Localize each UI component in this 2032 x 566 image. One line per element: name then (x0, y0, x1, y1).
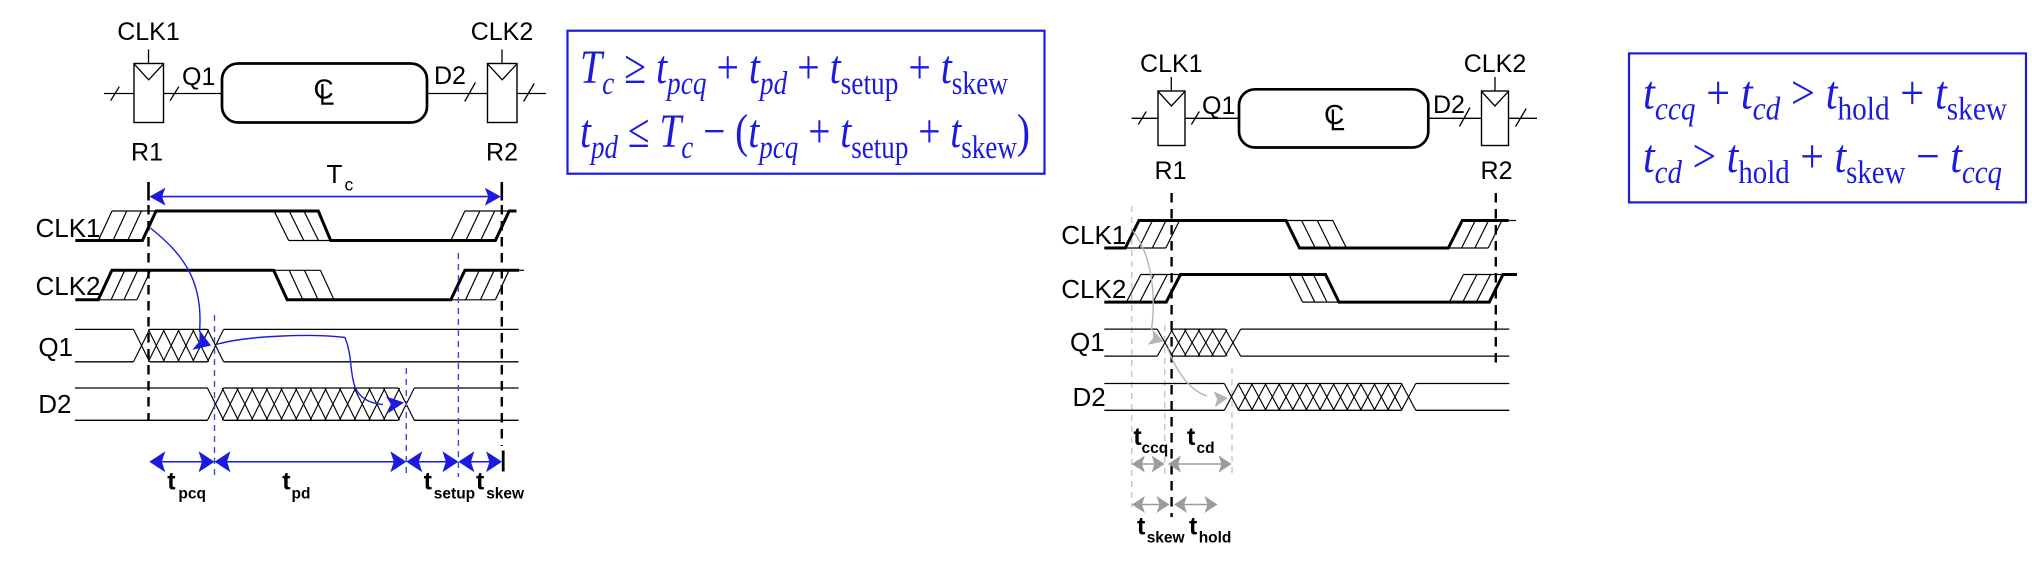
svg-text:pcq: pcq (178, 486, 206, 503)
dashed marker: Q1 settled (tpcq end) (214, 315, 216, 477)
svg-text:tcd > thold + tskew − tccq: tcd > thold + tskew − tccq (1643, 130, 2002, 191)
waveform CLK2 (right): rise-2 uncertainty hatch (1449, 275, 1503, 303)
svg-text:ccq: ccq (1142, 440, 1169, 457)
wire input to R1 with bus slash (104, 87, 134, 101)
label tpcq (167, 468, 206, 503)
svg-text:CLK2: CLK2 (1464, 50, 1527, 78)
waveform D2 (right): bus rails (1104, 384, 1509, 411)
waveform CLK1 (right): main thick trace (1104, 221, 1508, 249)
gray dashed marker: D2 contamination (1231, 368, 1233, 476)
svg-text:t: t (476, 468, 485, 496)
dimension arrow tpcq (159, 461, 205, 463)
waveform CLK1 (left): rise-2 uncertainty hatch (451, 211, 509, 241)
svg-text:t: t (1137, 513, 1146, 541)
label thold (1189, 513, 1231, 547)
svg-text:t: t (424, 468, 433, 496)
dashed line: R2 clock edge (right) (1495, 193, 1497, 369)
svg-text:CLK1: CLK1 (35, 213, 100, 243)
label tskew (476, 468, 525, 503)
dashed line: R2 clock edge (left) (501, 205, 503, 446)
waveform CLK2 (right): fall-1 uncertainty hatch (1289, 275, 1339, 303)
waveform CLK1 (right): fall-1 uncertainty hatch (1286, 221, 1346, 249)
waveform CLK2 (left): rise-2 uncertainty hatch (451, 270, 524, 300)
svg-text:setup: setup (434, 486, 475, 503)
causality arrow: CLK1 edge to Q1 change (151, 228, 201, 332)
svg-text:t: t (1187, 423, 1196, 451)
waveform Q1 (right): transition crosshatch (1157, 329, 1241, 356)
wire input to R1 with bus slash (right) (1132, 112, 1158, 125)
svg-text:Q1: Q1 (182, 63, 215, 91)
dimension arrow tccq (1140, 463, 1157, 465)
Tc period dimension arrow with end ticks (149, 182, 502, 206)
svg-text:CLK2: CLK2 (35, 271, 100, 301)
svg-text:D2: D2 (434, 62, 466, 90)
svg-text:t: t (282, 468, 291, 496)
causality arrow: Q1 to D2 change (216, 336, 383, 405)
svg-text:c: c (345, 175, 354, 195)
svg-text:skew: skew (1147, 530, 1186, 547)
svg-text:R2: R2 (486, 139, 518, 167)
waveform CLK2 (left): fall-1 uncertainty hatch (274, 270, 334, 300)
dimension arrow tskew (right) (1140, 504, 1162, 506)
waveform CLK2 (left): rise-1 uncertainty hatch (98, 270, 150, 300)
dashed line: R1 clock edge (left) (147, 205, 149, 420)
flip-flop R1 (134, 64, 164, 123)
svg-text:CLK1: CLK1 (1140, 50, 1203, 78)
dimension arrow tskew (468, 461, 492, 463)
label tpd (282, 468, 310, 503)
wire R2 output with bus slash (right) (1509, 109, 1538, 127)
gray dashed marker: CLK1 early edge (1131, 206, 1133, 507)
wire CLK2 to R2 clock pin (right) (1494, 77, 1496, 91)
svg-text:R2: R2 (1481, 157, 1513, 185)
waveform Q1 (right): bus rails (1104, 329, 1509, 356)
wire CLK2 to R2 clock pin (501, 50, 503, 64)
svg-text:C: C (1324, 99, 1344, 130)
CL symbol (314, 74, 334, 105)
waveform CLK1 (left): rise-1 uncertainty hatch (98, 211, 156, 241)
label tskew (right) (1137, 513, 1186, 547)
waveform CLK1 (left): main thick trace (75, 211, 516, 241)
wire D2: CL to R2 with bus slash (right) (1428, 108, 1481, 127)
flip-flop R1 (right) (1158, 91, 1185, 146)
wire CLK1 to R1 clock pin (148, 50, 150, 64)
CL combinational logic block (right) (1239, 89, 1428, 147)
equation box: hold time constraint (1629, 53, 2026, 202)
gray causality arrow: CLK1 edge to Q1 change (right) (1133, 231, 1153, 330)
svg-text:D2: D2 (38, 389, 71, 419)
flip-flop R2 (right) (1482, 91, 1509, 146)
waveform D2 (left): transition crosshatch (208, 388, 415, 420)
waveform CLK2 (right): main thick trace (1104, 275, 1517, 303)
label tccq (1133, 423, 1168, 457)
waveform Q1 (left): transition crosshatch (134, 329, 224, 361)
Tc label (327, 159, 354, 195)
equation box: setup time constraint (568, 31, 1045, 174)
svg-text:pd: pd (292, 486, 311, 503)
svg-text:CLK1: CLK1 (1061, 220, 1126, 250)
wire Q1: R1 to CL with bus slash (right) (1185, 112, 1239, 125)
svg-text:Q1: Q1 (38, 332, 73, 362)
waveform CLK2 (right): rise-1 uncertainty hatch (1126, 275, 1180, 303)
svg-text:t: t (1189, 513, 1198, 541)
svg-text:CLK2: CLK2 (1061, 274, 1126, 304)
dimension arrow tcd (1176, 463, 1224, 465)
waveform CLK1 (left): fall-1 uncertainty hatch (274, 211, 331, 241)
svg-text:CLK2: CLK2 (471, 18, 534, 46)
CL symbol (right) (1324, 99, 1344, 130)
svg-text:Q1: Q1 (1202, 92, 1235, 120)
CL combinational logic block (left) (222, 64, 427, 123)
dimension arrow thold (1182, 504, 1210, 506)
svg-text:t: t (167, 468, 176, 496)
waveform CLK1 (right): rise-1 uncertainty hatch (1125, 221, 1179, 249)
svg-text:CLK1: CLK1 (117, 18, 180, 46)
wire CLK1 to R1 clock pin (right) (1170, 77, 1172, 91)
svg-text:D2: D2 (1433, 91, 1465, 119)
wire D2: CL block to R2, with bus slash (427, 82, 488, 101)
dimension arrow tsetup (416, 461, 449, 463)
dashed marker: D2 settled (tpd end) (405, 368, 407, 477)
wire R2 output with bus slash (517, 84, 546, 102)
flip-flop R2 (488, 64, 518, 123)
wire Q1: R1 to CL block, with bus slash (164, 87, 223, 101)
gray dashed marker: Q1 contamination (1164, 325, 1166, 476)
waveform CLK1 (right): rise-2 uncertainty hatch (1448, 221, 1516, 249)
waveform D2 (left): bus rails (75, 388, 519, 420)
svg-text:D2: D2 (1072, 382, 1105, 412)
waveform D2 (right): transition crosshatch (1224, 384, 1416, 411)
label tsetup (424, 468, 476, 503)
gray causality arrow: Q1 to D2 change (right) (1168, 348, 1208, 396)
dashed marker: setup boundary (457, 253, 459, 477)
label tcd (1187, 423, 1215, 457)
svg-text:Tc ≥ tpcq + tpd + tsetup + tsk: Tc ≥ tpcq + tpd + tsetup + tskew (580, 41, 1008, 102)
svg-text:cd: cd (1197, 440, 1215, 457)
svg-text:R1: R1 (131, 139, 163, 167)
svg-text:hold: hold (1199, 530, 1232, 547)
svg-text:T: T (327, 159, 343, 189)
svg-text:R1: R1 (1155, 157, 1187, 185)
tick at end of tskew (502, 451, 505, 472)
svg-text:skew: skew (486, 486, 525, 503)
waveform CLK2 (left): main thick trace (75, 270, 519, 300)
waveform Q1 (left): bus rails (75, 329, 519, 361)
dimension arrow tpd (224, 461, 397, 463)
dashed line: R1 clock edge (right) (1170, 193, 1172, 517)
svg-text:C: C (314, 74, 334, 105)
svg-text:Q1: Q1 (1070, 327, 1105, 357)
